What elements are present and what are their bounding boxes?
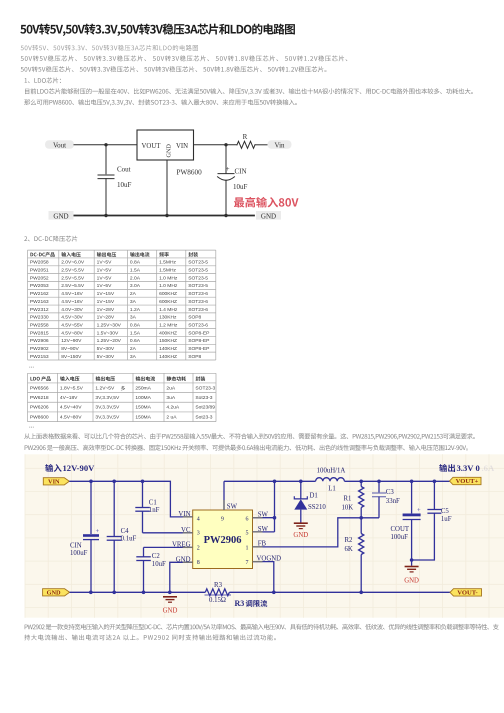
svg-text:1V~15V: 1V~15V — [97, 291, 115, 297]
svg-text:4.5V~80V: 4.5V~80V — [60, 414, 82, 420]
svg-text:1.5MHz: 1.5MHz — [159, 260, 176, 266]
svg-text:4.5V~40V: 4.5V~40V — [60, 405, 82, 411]
svg-text:1.0 MHz: 1.0 MHz — [159, 275, 178, 281]
svg-text:SOP8: SOP8 — [188, 354, 201, 360]
svg-text:3uA: 3uA — [166, 395, 175, 401]
node Vin (input terminal label) — [268, 140, 292, 149]
svg-text:PW2163: PW2163 — [30, 299, 49, 305]
wire VOGND pin 7 — [253, 555, 282, 592]
ground rail — [74, 215, 255, 217]
svg-text:0.6A: 0.6A — [130, 338, 141, 344]
node junction ground rail x=114.2 — [112, 591, 116, 595]
svg-text:1.2V~5V: 1.2V~5V — [95, 385, 115, 391]
svg-text:PW2051: PW2051 — [30, 268, 49, 274]
svg-text:0.8A: 0.8A — [130, 322, 141, 328]
svg-text:2uA: 2uA — [166, 385, 175, 391]
svg-text:3.0A: 3.0A — [130, 283, 141, 289]
svg-text:PW8600: PW8600 — [30, 414, 49, 420]
capacitor Cout 10uF — [98, 166, 132, 189]
node junction output rail x=411.6 — [410, 480, 414, 484]
pin name labels — [172, 511, 191, 563]
svg-text:SOT23-6: SOT23-6 — [188, 291, 208, 297]
capacitor C5 1uF — [412, 481, 452, 560]
svg-text:...: ... — [29, 364, 34, 370]
svg-text:2.0A: 2.0A — [130, 275, 141, 281]
capacitor C1 1nF — [135, 481, 159, 533]
svg-text:1.5MHz: 1.5MHz — [159, 268, 176, 274]
capacitor C3 33nF feedforward — [361, 481, 400, 518]
svg-text:SOT23-3: SOT23-3 — [195, 385, 215, 391]
node junction ground rail x=90.8 — [89, 591, 93, 595]
wire SW top run — [224, 480, 316, 482]
svg-text:5V~30V: 5V~30V — [97, 354, 115, 360]
pin 9 SW riser — [224, 481, 238, 510]
svg-text:2.5V~5.5V: 2.5V~5.5V — [61, 283, 85, 289]
wire GND pin 8 — [170, 562, 193, 592]
svg-text:Sot23/89: Sot23/89 — [195, 405, 215, 411]
resistor R3 0.15ohm current limit — [205, 582, 232, 604]
capacitor C4 0.1uF — [107, 481, 137, 592]
node junction ground rail x=143.5 — [142, 591, 146, 595]
wire ground rail left — [70, 591, 206, 593]
svg-text:PW2052: PW2052 — [30, 275, 49, 281]
IC U2 PW8600 LDO regulator — [137, 130, 202, 177]
svg-text:600KHZ: 600KHZ — [159, 291, 177, 297]
wire output rail — [344, 480, 449, 482]
wire IC GND pin down — [166, 160, 168, 216]
svg-text:SOP8-EP: SOP8-EP — [188, 330, 209, 336]
wire VIN rail — [69, 481, 192, 517]
ground symbol main GND — [163, 597, 178, 615]
svg-text:2 uA: 2 uA — [166, 414, 177, 420]
svg-text:PW2162: PW2162 — [30, 291, 49, 297]
wire VIN pin to node — [194, 144, 238, 146]
svg-text:250mA: 250mA — [135, 385, 151, 391]
svg-text:400KHZ: 400KHZ — [159, 330, 177, 336]
wire CIN top — [225, 145, 227, 173]
svg-text:1.0 MHz: 1.0 MHz — [159, 283, 178, 289]
svg-text:SOT23-6: SOT23-6 — [188, 299, 208, 305]
wire VC pin — [143, 532, 193, 534]
svg-text:2A: 2A — [130, 291, 137, 297]
wire VREG pin — [144, 546, 193, 548]
svg-text:PW2053: PW2053 — [30, 283, 49, 289]
node junction CIN/VIN rail — [89, 480, 93, 484]
svg-text:1V~5V: 1V~5V — [97, 283, 113, 289]
svg-text:SOT23-5: SOT23-5 — [188, 268, 208, 274]
svg-text:3V,3.3V,5V: 3V,3.3V,5V — [95, 414, 120, 420]
svg-text:1.8V~5.5V: 1.8V~5.5V — [60, 385, 84, 391]
svg-text:3A: 3A — [130, 354, 137, 360]
diode D1 SS210 schottky — [294, 481, 326, 522]
svg-text:4.2uA: 4.2uA — [166, 405, 180, 411]
svg-text:1.5A: 1.5A — [130, 330, 141, 336]
svg-text:3V,3.3V,5V: 3V,3.3V,5V — [95, 395, 120, 401]
svg-text:2.0V~6.0V: 2.0V~6.0V — [61, 260, 85, 266]
node junction pin6/SW vertical — [273, 516, 277, 520]
svg-text:0.8A: 0.8A — [130, 260, 141, 266]
node junction ground rail x=169.8 — [168, 591, 172, 595]
node junction SW vertical — [273, 480, 277, 484]
svg-text:3A: 3A — [130, 315, 137, 321]
pin stubs (gray pin leads) — [183, 500, 263, 562]
ground symbol below D1 — [293, 523, 308, 539]
svg-text:1.4 MHz: 1.4 MHz — [159, 307, 178, 313]
svg-text:4.5V~55V: 4.5V~55V — [61, 322, 83, 328]
svg-text:1V~28V: 1V~28V — [97, 307, 115, 313]
svg-text:8V~90V: 8V~90V — [61, 346, 79, 352]
svg-text:4.5V~16V: 4.5V~16V — [61, 299, 83, 305]
node junction Vout/Cout — [104, 143, 107, 146]
svg-text:1V~5V: 1V~5V — [97, 275, 113, 281]
svg-text:PW2330: PW2330 — [30, 315, 49, 321]
svg-text:SOT23-5: SOT23-5 — [188, 260, 208, 266]
wire Cout bottom — [105, 179, 107, 216]
svg-text:4.5V~16V: 4.5V~16V — [61, 291, 83, 297]
svg-text:5V~30V: 5V~30V — [97, 346, 115, 352]
svg-text:SOT23-6: SOT23-6 — [188, 307, 208, 313]
svg-text:3A: 3A — [130, 299, 137, 305]
svg-text:SOP8-EP: SOP8-EP — [188, 338, 209, 344]
svg-text:1.25V~20V: 1.25V~20V — [97, 338, 122, 344]
svg-text:Sot23-3: Sot23-3 — [195, 414, 212, 420]
node junction rail/Cout — [104, 214, 107, 217]
wire CIN bottom — [225, 180, 227, 215]
svg-text:...: ... — [29, 424, 34, 430]
svg-text:4.5V~30V: 4.5V~30V — [61, 315, 83, 321]
resistor R1 10K — [342, 481, 364, 518]
node junction COUT/C5 ground — [410, 558, 414, 562]
svg-text:SOT23-5: SOT23-5 — [188, 283, 208, 289]
wire FB pin 1 — [253, 518, 362, 548]
IC U1 PW2906 buck regulator — [193, 510, 253, 569]
node VOUT- net flag — [450, 589, 482, 597]
wire pin 6 SW — [253, 511, 275, 518]
ground symbol below COUT — [404, 567, 419, 585]
node junction FB/R1/R2 — [359, 516, 363, 520]
node Vout (output terminal label) — [45, 140, 74, 149]
node junction C1/VIN rail — [141, 480, 145, 484]
svg-text:3V,3.3V,5V: 3V,3.3V,5V — [95, 405, 120, 411]
node GND net flag — [43, 589, 70, 597]
svg-text:PW6566: PW6566 — [30, 385, 49, 391]
wire to output ground symbol — [411, 560, 413, 566]
node junction VIN/CIN — [224, 143, 227, 146]
svg-text:1V~15V: 1V~15V — [97, 299, 115, 305]
svg-text:PW2312: PW2312 — [30, 307, 49, 313]
wire Vout to regulator — [74, 144, 137, 146]
resistor R2 6K — [345, 518, 364, 593]
ground GND right — [256, 211, 281, 220]
capacitor CIN 100uF electrolytic — [70, 481, 100, 592]
svg-text:1.2A: 1.2A — [130, 307, 141, 313]
svg-text:1.25V~30V: 1.25V~30V — [97, 322, 122, 328]
svg-text:SOT23-5: SOT23-5 — [188, 275, 208, 281]
capacitor C2 10uF — [136, 547, 166, 592]
svg-text:600KHZ: 600KHZ — [159, 299, 177, 305]
capacitor COUT 100uF electrolytic — [391, 481, 422, 560]
svg-text:140KHZ: 140KHZ — [159, 354, 177, 360]
svg-text:PW6218: PW6218 — [30, 395, 49, 401]
node VOUT+ net flag — [450, 477, 482, 485]
svg-text:2A: 2A — [130, 346, 137, 352]
svg-text:1V~5V: 1V~5V — [97, 260, 113, 266]
svg-text:1.2 MHz: 1.2 MHz — [159, 322, 178, 328]
svg-text:SOP8: SOP8 — [188, 315, 201, 321]
svg-text:140KHZ: 140KHZ — [159, 346, 177, 352]
wire SW pins vertical — [274, 481, 276, 532]
capacitor CIN 10uF (electrolytic, polarized) — [218, 164, 248, 191]
node VIN net flag — [43, 478, 69, 486]
node junction output rail x=379 — [377, 480, 381, 484]
node junction R2/rail — [359, 591, 363, 595]
svg-text:PW2153: PW2153 — [30, 354, 49, 360]
node junction output rail x=361.2 — [359, 480, 363, 484]
svg-text:1.5A: 1.5A — [130, 268, 141, 274]
svg-text:2.5V~5.5V: 2.5V~5.5V — [61, 268, 85, 274]
svg-text:12V~90V: 12V~90V — [61, 338, 82, 344]
svg-text:4.0V~30V: 4.0V~30V — [61, 307, 83, 313]
node junction rail/GND pin — [165, 214, 168, 217]
svg-text:Sot23-3: Sot23-3 — [195, 395, 212, 401]
node junction output rail x=434.4 — [433, 480, 437, 484]
svg-text:PW2906: PW2906 — [30, 338, 49, 344]
svg-text:8V~150V: 8V~150V — [61, 354, 82, 360]
wire pin 5 SW — [253, 526, 275, 533]
svg-text:150KHZ: 150KHZ — [159, 338, 177, 344]
svg-text:PW2058: PW2058 — [30, 260, 49, 266]
svg-text:1V~28V: 1V~28V — [97, 315, 115, 321]
svg-text:PW2902: PW2902 — [30, 346, 49, 352]
wire ground rail right — [229, 591, 450, 593]
svg-text:2.5V~5.5V: 2.5V~5.5V — [61, 275, 85, 281]
svg-text:SOT23-6: SOT23-6 — [188, 322, 208, 328]
svg-text:4.5V~80V: 4.5V~80V — [61, 330, 83, 336]
wire Cout top — [105, 145, 107, 174]
svg-text:150MA: 150MA — [135, 414, 151, 420]
node junction C4/VIN rail — [112, 480, 116, 484]
ground GND left — [49, 211, 74, 220]
svg-text:4V~18V: 4V~18V — [60, 395, 78, 401]
node junction rail/CIN — [224, 214, 227, 217]
svg-text:150MA: 150MA — [135, 405, 151, 411]
wire R to Vin — [255, 144, 267, 146]
svg-text:1V~5V: 1V~5V — [97, 268, 113, 274]
svg-text:SOP8-EP: SOP8-EP — [188, 346, 209, 352]
svg-text:PW2558: PW2558 — [30, 322, 49, 328]
svg-text:130KHz: 130KHz — [159, 315, 177, 321]
inductor L1 100uH/1A — [316, 468, 346, 493]
node junction D1/SW — [299, 480, 303, 484]
resistor R — [237, 133, 255, 149]
svg-text:PW2815: PW2815 — [30, 330, 49, 336]
node junction VOGND/rail — [272, 591, 276, 595]
svg-text:100MA: 100MA — [135, 395, 151, 401]
svg-text:1.5V~30V: 1.5V~30V — [97, 330, 119, 336]
svg-text:PW6206: PW6206 — [30, 405, 49, 411]
